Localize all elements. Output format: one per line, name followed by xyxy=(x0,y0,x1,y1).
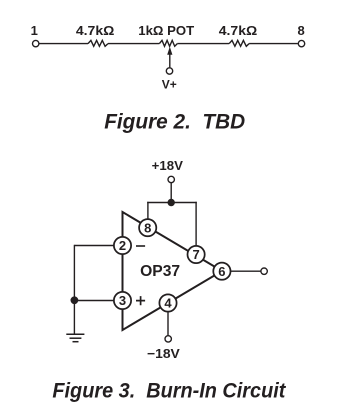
wire xyxy=(249,43,298,45)
wire xyxy=(74,300,122,302)
terminal V+ xyxy=(166,68,172,74)
pin 6 xyxy=(213,263,230,280)
terminal 1 xyxy=(33,40,39,46)
potentiometer R2 element xyxy=(159,40,177,46)
svg-text:V+: V+ xyxy=(162,78,177,92)
pin 4 xyxy=(159,294,176,311)
svg-text:3: 3 xyxy=(119,293,126,308)
wire xyxy=(222,270,261,272)
svg-text:Figure 2. TBD: Figure 2. TBD xyxy=(104,110,245,133)
junction xyxy=(168,199,175,206)
svg-text:4.7kΩ: 4.7kΩ xyxy=(219,23,258,38)
wire xyxy=(147,202,149,220)
pin 7 xyxy=(188,246,205,263)
resistor R1 xyxy=(88,40,108,46)
ground xyxy=(66,334,84,341)
junction xyxy=(71,296,79,304)
wire xyxy=(177,43,229,45)
pin 2 xyxy=(114,237,131,254)
terminal -18V xyxy=(165,336,171,342)
svg-text:1: 1 xyxy=(31,23,38,38)
wire xyxy=(73,245,75,334)
svg-text:Figure 3. Burn-In Circuit: Figure 3. Burn-In Circuit xyxy=(52,380,286,403)
wire xyxy=(167,303,169,336)
wire xyxy=(195,202,197,247)
potentiometer wiper arrow xyxy=(167,47,172,68)
wire xyxy=(74,245,122,247)
wire xyxy=(39,43,88,45)
wire xyxy=(108,43,159,45)
svg-text:OP37: OP37 xyxy=(140,263,180,280)
svg-text:4.7kΩ: 4.7kΩ xyxy=(76,23,115,38)
svg-text:1kΩ POT: 1kΩ POT xyxy=(138,23,194,38)
pin 8 xyxy=(139,219,156,236)
terminal +18V xyxy=(168,176,174,182)
non-inverting input plus sign xyxy=(136,296,145,305)
svg-text:8: 8 xyxy=(297,23,304,38)
inverting input minus sign xyxy=(136,245,145,247)
pin 3 xyxy=(114,292,131,309)
svg-text:−18V: −18V xyxy=(147,346,180,361)
svg-text:2: 2 xyxy=(119,238,126,253)
svg-text:8: 8 xyxy=(144,220,151,235)
wire xyxy=(147,202,197,204)
wire xyxy=(170,183,172,203)
resistor R3 xyxy=(229,40,249,46)
svg-text:6: 6 xyxy=(218,264,225,279)
svg-text:4: 4 xyxy=(164,296,172,311)
terminal output xyxy=(261,268,267,274)
terminal 8 xyxy=(298,40,304,46)
op-amp U1 xyxy=(123,212,223,330)
svg-text:+18V: +18V xyxy=(152,158,184,173)
svg-text:7: 7 xyxy=(192,247,199,262)
